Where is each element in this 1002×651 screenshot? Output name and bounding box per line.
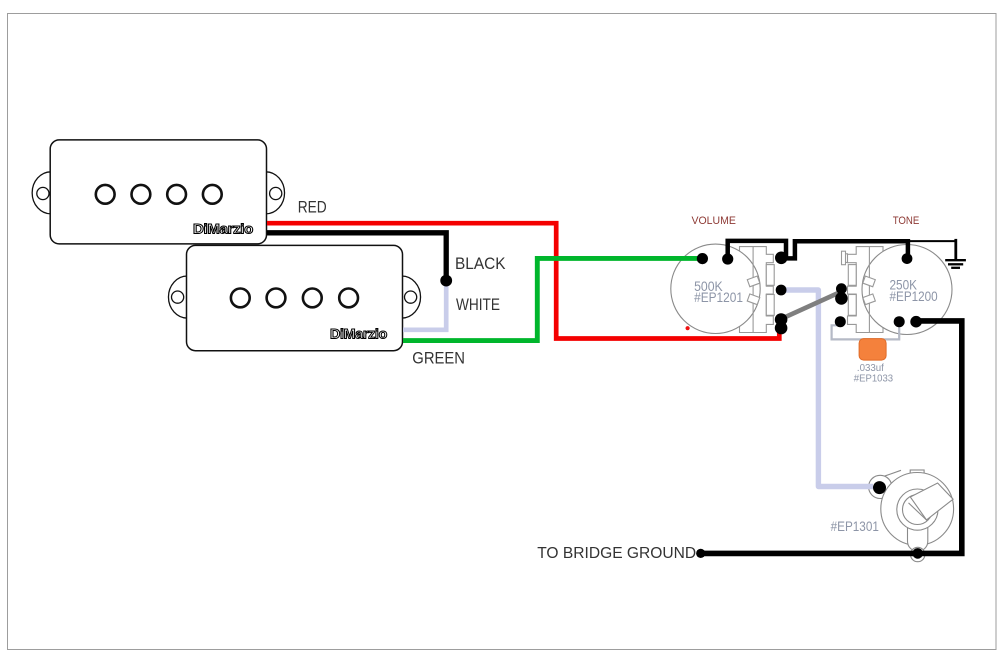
svg-text:.033uf: .033uf (857, 363, 884, 374)
P1 left mounting ear (32, 172, 51, 214)
solder dot bus1 at volume case (722, 253, 733, 264)
wire white lavender (P2 to junction) (403, 279, 446, 330)
jack hot arm (910, 483, 953, 520)
wire green (P2 hot to volume case) (403, 258, 699, 340)
svg-text:RED: RED (298, 197, 327, 216)
wire red (P1 hot to volume lug) (267, 223, 779, 338)
TONE casing chord line (868, 247, 870, 333)
TONE slanted tab lower (863, 294, 876, 305)
TONE element rect lower (848, 295, 856, 316)
pickup P1 (neck half) (32, 140, 284, 244)
P1 body (50, 140, 266, 244)
wire ground feed (908, 240, 957, 242)
VOL element rect upper (766, 265, 774, 286)
wire black bridge ground (tone case to jack sleeve to bridge) (701, 321, 962, 554)
svg-text:VOLUME: VOLUME (692, 215, 736, 227)
jack washer outer ring (897, 489, 938, 530)
P1 pole piece 1 (96, 185, 115, 204)
P2 left mounting ear (168, 276, 187, 318)
P1 pole piece 3 (167, 185, 186, 204)
volume pot VOL 500K (671, 244, 774, 333)
solder dot gray wire at volume lug1 (775, 313, 788, 326)
wire black bus2 (volume lug3 to tone case) (787, 241, 908, 258)
VOL red position dot (686, 326, 690, 330)
svg-text:#EP1301: #EP1301 (831, 519, 879, 534)
svg-text:DiMarzio: DiMarzio (193, 222, 253, 237)
VOL element rect lower (766, 295, 774, 316)
svg-text:#EP1033: #EP1033 (854, 373, 894, 384)
P1 right ear hole (270, 187, 282, 199)
svg-text:GREEN: GREEN (412, 349, 465, 368)
jack hot lug tab circle (869, 475, 892, 498)
P1 left ear hole (37, 187, 49, 199)
TONE unused lug connector lines (846, 254, 849, 263)
VOL casing profile (740, 247, 774, 333)
VOL slanted tab lower (747, 294, 760, 305)
TONE slanted tab upper (863, 276, 876, 287)
P2 pole piece 3 (303, 289, 322, 308)
solder dot tone case bottom left (894, 316, 905, 327)
capacitor C1 .033uf (859, 339, 886, 361)
P1 right mounting ear (266, 172, 285, 214)
bridge ground wire end dot (696, 549, 705, 558)
solder dot tone case bottom right (910, 316, 922, 328)
wire white output (volume wiper to jack) (776, 290, 873, 487)
svg-text:DiMarzio: DiMarzio (330, 326, 387, 341)
solder dot tone lug2 (836, 283, 847, 294)
P2 left ear hole (172, 291, 184, 303)
TONE unused lug bar (842, 251, 846, 265)
pickup P2 (bridge half) (168, 245, 420, 350)
svg-text:#EP1201: #EP1201 (694, 289, 743, 305)
solder dot jack sleeve lug (912, 548, 923, 559)
junction dot black-white wires (440, 275, 452, 287)
jack washer inner ring (903, 495, 933, 525)
P1 pole piece 2 (132, 185, 151, 204)
solder dot volume lug3 (775, 251, 788, 264)
P2 pole piece 4 (339, 289, 358, 308)
solder dot tone case top (902, 253, 913, 264)
wire black bus1 (volume case to volume lug3) (728, 241, 786, 258)
jack tab neck (884, 470, 901, 497)
svg-text:WHITE: WHITE (456, 295, 500, 314)
VOL slanted tab upper (747, 276, 760, 287)
svg-text:TO BRIDGE GROUND: TO BRIDGE GROUND (537, 545, 696, 562)
P2 pole piece 2 (267, 289, 286, 308)
P2 right mounting ear (402, 276, 421, 318)
TONE casing profile (848, 247, 884, 333)
VOL casing chord line (752, 247, 754, 333)
tone pot TONE 250K (842, 245, 953, 335)
solder dot tone lug1 cap (835, 316, 846, 327)
solder dot red wire at volume lug1 (775, 322, 788, 335)
jack sleeve hole (911, 547, 925, 561)
P1 pole piece 4 (203, 185, 222, 204)
wire black (P1 ground to junction) (267, 233, 446, 279)
ground symbol stem (954, 239, 957, 259)
P2 right ear hole (405, 291, 417, 303)
jack body circle (881, 473, 954, 546)
svg-text:TONE: TONE (893, 215, 920, 227)
svg-text:BLACK: BLACK (455, 254, 506, 273)
jack top tab (910, 470, 924, 479)
TONE element rect upper (848, 265, 856, 286)
TONE pot body circle (862, 245, 952, 335)
wire tone cap loop (light gray) (832, 323, 900, 340)
P2 body (187, 245, 403, 350)
svg-text:#EP1200: #EP1200 (890, 288, 938, 304)
solder dot volume lug2 wiper (776, 285, 787, 296)
wire gray (volume wiper to tone lug) (781, 292, 842, 320)
ground symbol (945, 260, 966, 268)
VOL pot body circle (671, 244, 760, 333)
jack sleeve tab (908, 527, 928, 552)
jack arm inner diagonal (909, 503, 927, 521)
solder dot green at volume case (697, 253, 708, 264)
solder dot jack hot lug (873, 481, 886, 494)
solder dot gray wire at tone lug2 (835, 292, 848, 305)
output jack J1 #EP1301 (869, 470, 954, 562)
P2 pole piece 1 (231, 289, 250, 308)
